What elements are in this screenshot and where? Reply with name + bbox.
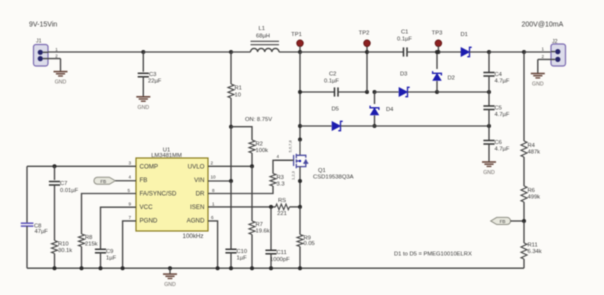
node rail C10 [229, 266, 233, 270]
wire C5 to row3 [488, 110, 490, 127]
wire top rail J1 to C3 [48, 51, 143, 53]
svg-text:FB: FB [100, 179, 106, 184]
svg-text:8: 8 [212, 188, 215, 193]
svg-text:VCC: VCC [140, 204, 154, 211]
svg-text:9V-15Vin: 9V-15Vin [29, 22, 57, 29]
svg-text:19.6k: 19.6k [256, 229, 270, 235]
node rail R9 [298, 266, 302, 270]
wire C9 to rail [100, 253, 102, 268]
svg-text:C10: C10 [237, 249, 248, 255]
svg-text:3.3: 3.3 [277, 182, 285, 188]
svg-text:C6: C6 [495, 140, 502, 146]
svg-text:DR: DR [196, 191, 205, 198]
node TP2 top [365, 50, 369, 54]
svg-text:200V@10mA: 200V@10mA [522, 21, 564, 28]
node TP2 bottom [365, 90, 369, 94]
wire R1 to VIN [230, 127, 232, 181]
svg-text:C5: C5 [495, 106, 502, 112]
wire C7 to R10 [54, 185, 56, 241]
svg-text:100kHz: 100kHz [183, 233, 204, 240]
node row2 C4C5 [487, 90, 491, 94]
wire branch to R2 [231, 127, 252, 140]
capacitor C8 [21, 223, 48, 235]
inductor L1 [251, 26, 280, 52]
svg-text:0.01µF: 0.01µF [60, 188, 79, 194]
resistor R11 [521, 243, 542, 260]
resistor R7 [249, 221, 270, 235]
node FB tap [522, 219, 526, 223]
wire R11 to rail [523, 259, 525, 268]
node D5 row tap [298, 124, 302, 128]
svg-text:CSD19538Q3A: CSD19538Q3A [313, 175, 354, 181]
wire C2 to TP2col [338, 91, 367, 93]
wire D5 to D4col [341, 125, 375, 127]
net flag FB left [94, 177, 115, 184]
svg-text:GND: GND [532, 82, 544, 88]
svg-text:30.1k: 30.1k [58, 248, 72, 254]
svg-text:499k: 499k [528, 195, 541, 201]
node C11 tap [269, 205, 273, 209]
svg-text:4: 4 [129, 174, 132, 179]
IC U1 LM3481MM [136, 148, 208, 241]
wire gnd stub [169, 268, 171, 274]
svg-text:R8: R8 [85, 235, 92, 241]
svg-text:1,2,3: 1,2,3 [291, 170, 296, 180]
resistor R9 [297, 235, 315, 247]
wire C1 to TP3 [407, 51, 438, 53]
node VIN junction [229, 179, 233, 183]
svg-text:0.1µF: 0.1µF [324, 79, 339, 85]
node rail PGND [121, 266, 125, 270]
wire to J2 [524, 51, 551, 53]
resistor RS [276, 198, 290, 217]
wire row2 D4 to D3 [375, 91, 399, 93]
capacitor C3 [138, 52, 162, 84]
svg-text:4.7µF: 4.7µF [495, 147, 510, 153]
wire ISEN to RS [208, 206, 276, 208]
svg-text:R4: R4 [528, 143, 536, 149]
resistor R6 [521, 186, 540, 202]
svg-text:D1: D1 [461, 32, 468, 38]
svg-text:GND: GND [483, 170, 495, 176]
svg-text:2: 2 [211, 161, 214, 166]
svg-text:47µF: 47µF [35, 229, 49, 235]
wire FA/SYNC/SD to R8 [82, 194, 137, 235]
svg-text:TP3: TP3 [432, 31, 443, 37]
svg-text:TP2: TP2 [359, 31, 370, 37]
U1 pin numbers [128, 161, 217, 220]
svg-text:LM3481MM: LM3481MM [151, 153, 182, 159]
svg-text:3: 3 [129, 161, 132, 166]
testpoint TP1 [291, 32, 303, 52]
wire R3 to gate [273, 160, 293, 173]
svg-text:1µF: 1µF [237, 256, 248, 262]
wire left rail bottom [26, 226, 28, 268]
svg-text:AGND: AGND [187, 218, 205, 225]
resistor R10 [52, 241, 73, 255]
transistor Q1 [275, 139, 354, 180]
wire J1 pin2 to gnd [60, 59, 62, 72]
svg-text:GND: GND [55, 80, 67, 86]
testpoint TP2 [359, 31, 371, 47]
net flag FB right [491, 217, 511, 224]
ground under C3 [136, 97, 150, 111]
wire C3 to gnd [142, 77, 144, 97]
capacitor C1 [397, 30, 412, 57]
svg-text:1: 1 [212, 202, 215, 207]
svg-text:D2: D2 [448, 76, 455, 82]
svg-text:C4: C4 [495, 72, 503, 78]
wire row3 to C5 col [375, 125, 490, 127]
wire source to R9 [299, 207, 301, 235]
node D2 top [435, 50, 439, 54]
note diodes [394, 252, 472, 258]
wire DR to R3 [208, 186, 273, 194]
svg-text:FB: FB [500, 219, 506, 224]
svg-text:C7: C7 [60, 181, 67, 187]
wire VIN col to C10 [230, 181, 232, 249]
svg-text:R1: R1 [235, 86, 242, 92]
diode D2 [433, 52, 455, 92]
svg-text:22µF: 22µF [148, 78, 162, 84]
ground under J2 [531, 74, 545, 88]
node rail R10 [53, 266, 57, 270]
wire TP3 to D1 [438, 51, 461, 53]
wire top rail C3 to R1 [143, 51, 231, 53]
svg-text:ISEN: ISEN [190, 204, 204, 211]
node row2 switch [298, 90, 302, 94]
node R1-R2 branch [229, 125, 233, 129]
svg-text:L1: L1 [259, 26, 265, 32]
capacitor C9 [95, 249, 117, 262]
node C3 tap [141, 50, 145, 54]
svg-text:6: 6 [211, 215, 214, 220]
ground main rail [163, 274, 177, 288]
wire top rail R1 to L1 [231, 51, 251, 53]
wire D3 to D2col [408, 91, 438, 93]
wire divider top [523, 52, 525, 141]
node source bundle [298, 179, 302, 183]
svg-text:0.05: 0.05 [304, 241, 315, 247]
svg-text:J1: J1 [36, 39, 42, 45]
svg-text:D1 to D5 = PMEG10010ELRX: D1 to D5 = PMEG10010ELRX [394, 252, 472, 258]
svg-text:J2: J2 [552, 39, 558, 45]
wire R7 to rail [251, 235, 253, 269]
svg-text:6.34k: 6.34k [528, 249, 542, 255]
svg-text:10: 10 [235, 93, 241, 99]
wire R4 to R6 [523, 157, 525, 186]
wire output rail [489, 51, 524, 53]
diode D3 [399, 72, 410, 97]
node rail C11 [269, 266, 273, 270]
resistor R3 [270, 174, 285, 188]
svg-text:7: 7 [129, 215, 132, 220]
node D4 bottom [373, 124, 377, 128]
svg-text:100k: 100k [256, 148, 269, 154]
svg-text:D3: D3 [400, 72, 407, 78]
svg-text:Q1: Q1 [318, 168, 326, 174]
wire row2 to C4 col [437, 91, 489, 93]
svg-text:4.7µF: 4.7µF [495, 112, 510, 118]
wire tap to R11 [523, 221, 525, 243]
diode D5 [332, 107, 343, 131]
svg-text:215k: 215k [85, 242, 98, 248]
wire VCC to C9 [101, 207, 137, 249]
svg-text:C1: C1 [401, 30, 408, 36]
connector J1 [34, 39, 61, 67]
wire switch node column [299, 52, 301, 140]
node Q1 drain [298, 138, 302, 142]
wire bottom rail [27, 267, 524, 269]
diode D4 [370, 92, 394, 126]
svg-text:COMP: COMP [140, 163, 159, 170]
node row2 D4 [373, 90, 377, 94]
svg-text:1000pF: 1000pF [270, 257, 290, 263]
wire J2 pin2 to gnd [537, 59, 539, 73]
testpoint TP3 [432, 31, 443, 53]
wire C11 to rail [270, 254, 272, 268]
svg-text:PGND: PGND [140, 218, 158, 225]
svg-text:RS: RS [278, 198, 286, 204]
input label [29, 22, 57, 29]
wire PGND down [123, 221, 136, 268]
svg-text:ON: 8.75V: ON: 8.75V [245, 117, 272, 123]
node C7 tap [53, 164, 57, 168]
svg-text:GND: GND [164, 282, 176, 288]
wire R6 to tap [523, 202, 525, 221]
connector J2 [538, 39, 566, 66]
wire C6 to gnd [488, 144, 490, 162]
ground under C6 [482, 162, 496, 176]
svg-text:1µF: 1µF [106, 256, 117, 262]
wire VIN [208, 180, 231, 182]
capacitor C2 [324, 72, 339, 97]
wire row2 from switch [300, 91, 334, 93]
capacitor C4 [483, 52, 509, 85]
svg-text:R11: R11 [528, 243, 538, 249]
resistor R4 [521, 141, 540, 157]
node rail C9 [99, 266, 103, 270]
wire FB pin [115, 180, 136, 182]
wire row3 from switch [300, 125, 332, 127]
node UVLO [250, 164, 254, 168]
node source RS [298, 205, 302, 209]
wire TP2 column [366, 43, 368, 92]
wire COMP [27, 165, 136, 167]
svg-text:R3: R3 [277, 175, 284, 181]
wire UVLO [208, 165, 252, 167]
wire R9 to rail [299, 247, 301, 269]
svg-text:UVLO: UVLO [188, 163, 205, 170]
wire R2 to UVLO [251, 153, 253, 166]
ground under J1 [54, 72, 68, 86]
svg-text:9: 9 [129, 202, 132, 207]
capacitor C6 [483, 126, 509, 153]
node row3 C5C6 [487, 124, 491, 128]
wire RS to source [290, 206, 301, 208]
wire L1 to switch node [279, 51, 300, 53]
wire D1 to C4 node [470, 51, 490, 53]
node D2 bottom [435, 90, 439, 94]
label gate pin 4 [277, 154, 280, 159]
svg-text:5: 5 [128, 188, 131, 193]
svg-text:C11: C11 [277, 250, 287, 256]
svg-text:D4: D4 [386, 107, 394, 113]
label ON voltage [245, 117, 272, 123]
svg-text:TP1: TP1 [291, 32, 302, 38]
svg-text:C2: C2 [329, 72, 336, 78]
output label [522, 21, 564, 28]
svg-text:4.7µF: 4.7µF [495, 79, 510, 85]
node rail R7 [250, 266, 254, 270]
resistor R8 [79, 234, 98, 248]
node switch top [298, 50, 302, 54]
svg-text:10: 10 [211, 174, 217, 179]
svg-text:221: 221 [277, 211, 287, 217]
node output divider [522, 50, 526, 54]
node rail AGND [216, 266, 220, 270]
svg-text:R6: R6 [528, 188, 535, 194]
svg-text:487k: 487k [528, 150, 541, 156]
wire top rail TP2 to C1 [367, 51, 403, 53]
svg-text:0.1µF: 0.1µF [397, 37, 412, 43]
svg-text:R7: R7 [256, 222, 263, 228]
svg-text:4: 4 [277, 154, 280, 159]
wire Q1 source [299, 167, 301, 207]
svg-text:D5: D5 [332, 107, 339, 113]
resistor R2 [249, 140, 268, 154]
svg-text:68µH: 68µH [256, 34, 270, 40]
wire UVLO to R7 [251, 166, 253, 221]
svg-text:5,6,7,8: 5,6,7,8 [288, 139, 293, 152]
svg-text:R10: R10 [58, 242, 69, 248]
svg-text:VIN: VIN [194, 177, 204, 184]
wire top rail TP1 to TP2 [300, 51, 367, 53]
node R1 tap [229, 50, 233, 54]
svg-text:GND: GND [138, 105, 150, 111]
wire R8 to rail [81, 247, 83, 269]
svg-text:FA/SYNC/SD: FA/SYNC/SD [140, 191, 177, 198]
capacitor C5 [483, 92, 509, 118]
node rail gnd [168, 266, 172, 270]
capacitor C7 [49, 166, 79, 194]
wire AGND down [208, 221, 218, 268]
svg-text:C3: C3 [149, 72, 156, 78]
node output C4 [487, 50, 491, 54]
svg-text:R2: R2 [256, 142, 263, 148]
wire left rail top [26, 166, 28, 222]
wire C4 to row2 [488, 76, 490, 92]
svg-text:FB: FB [140, 177, 148, 184]
wire FB flag to tap [510, 220, 524, 222]
node TP3 [436, 50, 440, 54]
node rail R8 [80, 266, 84, 270]
resistor R1 [228, 52, 242, 127]
diode D1 [461, 32, 472, 57]
capacitor C11 [265, 207, 290, 263]
capacitor C10 [225, 249, 247, 262]
svg-text:C9: C9 [106, 249, 113, 255]
wire R10 to rail [54, 254, 56, 269]
wire C10 to rail [230, 253, 232, 268]
